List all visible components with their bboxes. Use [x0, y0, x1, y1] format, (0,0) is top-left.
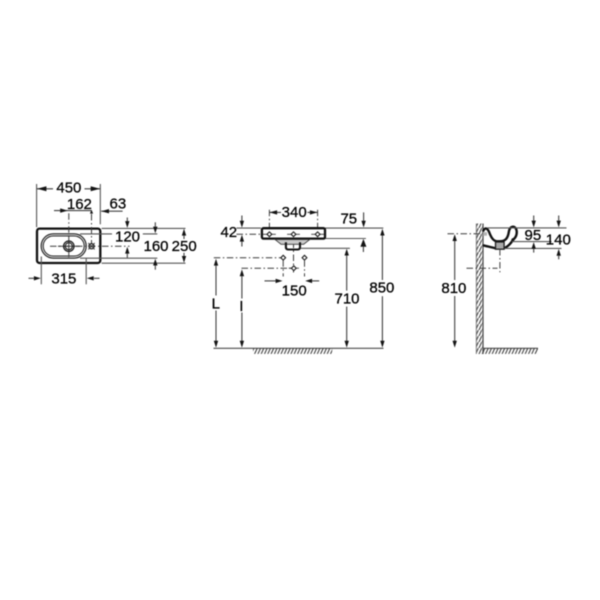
- dimension 850: [367, 229, 398, 348]
- svg-text:162: 162: [67, 196, 92, 213]
- centerline horizontal through drain and tap: [50, 245, 130, 247]
- dimension L: [212, 259, 220, 348]
- centerline vertical right tap hole: [317, 210, 319, 238]
- dimension 315: [29, 270, 100, 287]
- dimension 95: [525, 216, 542, 253]
- svg-text:340: 340: [282, 204, 307, 221]
- drain outer circle: [64, 241, 74, 251]
- wire: extension line left of 315 dim: [40, 257, 42, 285]
- dimension 75: [340, 210, 366, 252]
- wire: top edge extension left: [237, 227, 261, 229]
- washbasin outline front view: [262, 228, 325, 238]
- wire: bowl top extension line: [80, 233, 157, 235]
- wire: extension line right of 450 dim: [99, 184, 101, 224]
- svg-text:315: 315: [51, 270, 76, 287]
- centerline vertical below left fixing hole: [282, 260, 284, 276]
- dimension 340: [269, 204, 317, 221]
- dimension 162: [54, 196, 92, 213]
- wire: bottom edge extension right: [325, 238, 366, 240]
- fixing bracket gray patch: [483, 232, 487, 236]
- dimension 140: [546, 216, 571, 260]
- wire: drain bottom extension line (140): [505, 247, 562, 249]
- dimension 250: [172, 229, 197, 263]
- centerline vertical through tap hole: [91, 214, 93, 244]
- wire: extension line right of 315 dim: [85, 259, 87, 285]
- svg-text:75: 75: [340, 210, 357, 227]
- svg-text:42: 42: [220, 224, 237, 241]
- dimension 42: [220, 216, 244, 247]
- fixing hole left: [281, 255, 286, 260]
- centerline horizontal through tap holes: [237, 233, 325, 235]
- bowl underside trapezoid: [275, 240, 310, 245]
- drain inner circle: [65, 243, 72, 250]
- centerline vertical below right fixing hole: [304, 260, 306, 276]
- wire: bowl bottom extension line: [80, 257, 157, 259]
- dimension 150: [265, 279, 320, 300]
- wire: top edge extension line side view: [487, 227, 567, 229]
- washbasin outline plan view: [37, 229, 100, 263]
- svg-text:250: 250: [172, 238, 197, 255]
- centerline horizontal lower fixing hole side view: [467, 267, 498, 269]
- centerline horizontal lower fixing hole: [242, 267, 294, 269]
- svg-text:63: 63: [110, 196, 127, 213]
- tap hole symbol middle: [287, 232, 300, 237]
- basin profile side view: [483, 227, 517, 248]
- svg-text:850: 850: [369, 280, 394, 297]
- wire: front bottom extension line (95): [512, 241, 552, 243]
- dimension I: [239, 269, 244, 347]
- bowl oval outer: [41, 234, 86, 258]
- drain cross vertical: [68, 236, 70, 257]
- centerline vertical through drain: [68, 213, 70, 237]
- floor hatch front view: [253, 348, 332, 354]
- floor line front view: [214, 347, 384, 349]
- centerline vertical below drain side view: [499, 249, 501, 272]
- centerline horizontal upper fixing holes: [214, 257, 283, 259]
- svg-text:150: 150: [282, 283, 307, 300]
- svg-text:95: 95: [525, 227, 542, 244]
- tap hole symbol right: [311, 232, 324, 237]
- wire: extension line left of 450 dim: [36, 184, 38, 227]
- svg-text:450: 450: [56, 180, 81, 197]
- svg-text:I: I: [239, 298, 243, 315]
- fixing hole lower middle: [289, 266, 299, 271]
- tap hole symbol left: [263, 232, 276, 237]
- svg-text:710: 710: [334, 290, 359, 307]
- centerline vertical left tap hole: [268, 210, 270, 238]
- drain trap box side view: [496, 242, 505, 249]
- svg-text:160: 160: [143, 238, 168, 255]
- centerline horizontal fixing hole side view: [448, 233, 487, 235]
- wall hatched strip: [476, 224, 483, 355]
- arrowhead up on tap centerline (162 right terminator): [90, 210, 93, 214]
- wire: top edge extension line (right of basin): [102, 227, 186, 229]
- fixing hole right: [302, 255, 307, 260]
- svg-text:140: 140: [546, 232, 571, 249]
- floor line side view: [483, 347, 538, 349]
- svg-text:120: 120: [115, 229, 140, 246]
- svg-text:810: 810: [441, 280, 466, 297]
- wire: drain bottom extension line right: [301, 247, 350, 249]
- drain outlet box front view: [286, 242, 300, 249]
- dimension 450: [37, 180, 100, 197]
- dimension 710: [332, 249, 362, 348]
- dimension 810: [440, 234, 471, 347]
- dimension 120: [112, 218, 143, 258]
- bowl oval inner: [43, 236, 84, 256]
- dimension 160: [143, 222, 168, 269]
- svg-text:L: L: [212, 295, 220, 312]
- wire: bottom edge extension line (right of basin): [102, 262, 186, 264]
- wire: top edge extension right: [325, 227, 383, 229]
- drain cross horizontal: [58, 245, 80, 247]
- dimension 63: [101, 196, 126, 214]
- tap hole circle: [88, 243, 94, 249]
- floor hatch side view: [483, 348, 538, 354]
- centerline vertical middle (through bowl to lower hole): [293, 229, 295, 273]
